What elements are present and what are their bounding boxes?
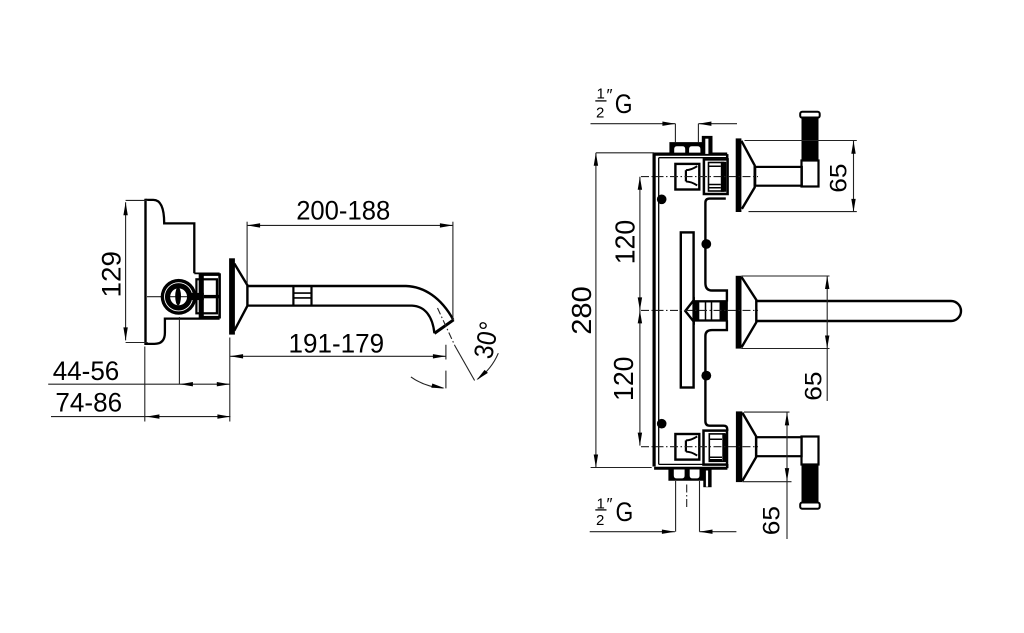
svg-text:2: 2 — [596, 104, 604, 121]
svg-text:280: 280 — [566, 286, 597, 334]
svg-text:″: ″ — [607, 495, 613, 514]
svg-text:129: 129 — [96, 251, 126, 298]
svg-text:74-86: 74-86 — [55, 388, 122, 418]
svg-text:2: 2 — [596, 512, 604, 529]
svg-text:65: 65 — [825, 164, 852, 193]
svg-text:200-188: 200-188 — [296, 196, 390, 226]
svg-text:44-56: 44-56 — [53, 356, 120, 386]
svg-text:65: 65 — [759, 506, 786, 535]
svg-text:G: G — [616, 497, 634, 527]
svg-text:120: 120 — [608, 357, 639, 402]
svg-text:G: G — [615, 89, 633, 119]
svg-text:″: ″ — [607, 86, 613, 105]
svg-text:65: 65 — [801, 372, 828, 401]
svg-text:1: 1 — [597, 86, 605, 103]
svg-text:191-179: 191-179 — [289, 328, 385, 358]
svg-text:120: 120 — [610, 220, 641, 265]
